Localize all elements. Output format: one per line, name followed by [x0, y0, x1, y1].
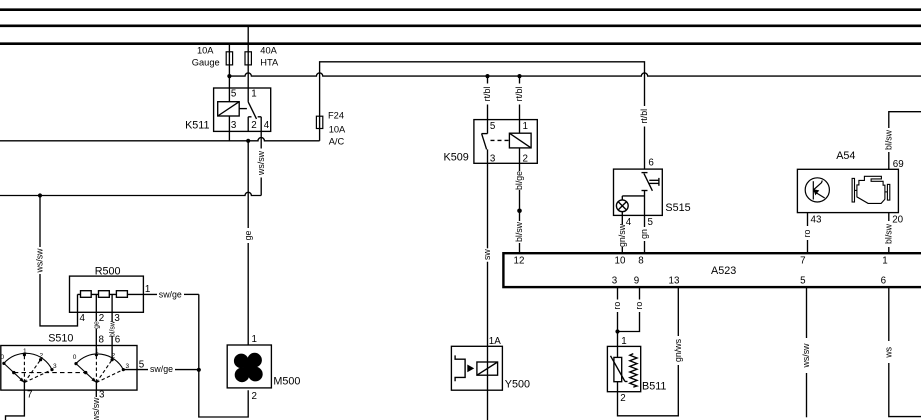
wire B511 pin2 loop to pin13 — [618, 365, 679, 416]
node K511 pin2 — [246, 139, 250, 143]
wire A523 pin6 ws — [888, 288, 890, 341]
sensor B511 — [607, 346, 640, 391]
svg-text:sw/ge: sw/ge — [159, 289, 182, 299]
wire K511 pin3 — [228, 116, 230, 141]
svg-text:1: 1 — [251, 88, 256, 99]
heated-seat switch S515 — [614, 169, 663, 215]
mechanical link S510 — [14, 372, 86, 374]
node line B / R500 branch — [38, 193, 42, 197]
wire S510 pin3 — [95, 390, 97, 397]
engine icon — [852, 176, 890, 203]
relay K511 — [214, 88, 271, 131]
wire 40A HTA feed — [247, 26, 249, 102]
svg-text:1: 1 — [23, 348, 27, 355]
lamp in S515 — [622, 195, 644, 197]
wire A54 pin20 bl/sw — [888, 213, 890, 221]
svg-text:S510: S510 — [48, 333, 73, 345]
svg-text:ge: ge — [94, 321, 101, 329]
svg-text:20: 20 — [892, 215, 903, 226]
svg-text:10A: 10A — [197, 46, 214, 56]
svg-text:1: 1 — [145, 284, 150, 295]
wire R500 pin3 to S510 pin6 — [111, 294, 113, 321]
wire A523 pin9 ro — [639, 288, 641, 300]
wire K509 pin2 bl/ge — [519, 148, 521, 171]
wire K509 pin3 sw to Y500 — [487, 149, 489, 248]
svg-text:1: 1 — [621, 336, 626, 347]
svg-text:ws/sw: ws/sw — [35, 248, 45, 274]
svg-text:bl/sw: bl/sw — [884, 223, 894, 244]
svg-text:gn: gn — [639, 229, 649, 239]
wire S510 pivot2 to pin3 — [95, 383, 97, 391]
wire K509 pin1 feed rt/bl — [519, 76, 521, 83]
node K509 pin5 feed — [485, 74, 489, 78]
svg-text:13: 13 — [669, 276, 680, 287]
wire A523 pin5 ws/sw — [806, 288, 808, 338]
wire line B — [0, 192, 261, 195]
svg-text:A523: A523 — [711, 265, 736, 277]
svg-text:gn/sw: gn/sw — [617, 223, 627, 247]
wire 10A gauge feed — [228, 44, 230, 102]
wire K509 pin5 feed rt/bl — [487, 76, 489, 83]
fuse F24 — [319, 116, 321, 141]
svg-text:Y500: Y500 — [505, 379, 530, 391]
svg-text:ws/sw: ws/sw — [91, 397, 101, 420]
svg-text:ro: ro — [802, 229, 812, 237]
wire net 30a horizontal (from fuse 10A to right edge, hops at 248/320/644) — [229, 73, 921, 76]
svg-text:7: 7 — [27, 390, 32, 401]
svg-text:sw/ge: sw/ge — [150, 364, 173, 374]
fuse 10A Gauge — [226, 52, 232, 65]
wire F24 to S515 pin6 — [320, 62, 645, 116]
svg-text:S515: S515 — [665, 202, 690, 214]
svg-text:A54: A54 — [836, 150, 855, 162]
svg-text:rt/bl: rt/bl — [639, 109, 649, 124]
svg-text:2: 2 — [112, 352, 116, 359]
wire S515 pin4 gn/sw — [621, 215, 623, 224]
wire K511 pin2 to M500 pin1 (ge) — [247, 141, 249, 228]
svg-text:bl/sw: bl/sw — [110, 320, 117, 337]
wire S510 pin5 sw/ge — [123, 369, 148, 371]
fuse 40A HTA — [245, 52, 251, 65]
svg-text:F24: F24 — [328, 110, 344, 120]
svg-text:6: 6 — [648, 157, 654, 168]
svg-text:9: 9 — [634, 276, 639, 287]
svg-text:HTA: HTA — [260, 57, 279, 67]
svg-text:R500: R500 — [95, 265, 121, 277]
svg-text:3: 3 — [612, 276, 618, 287]
node B511 pin1 — [615, 329, 619, 333]
svg-text:bl/sw: bl/sw — [514, 221, 524, 242]
wire S515 pin5 gn — [644, 215, 646, 227]
svg-text:1: 1 — [95, 348, 99, 355]
svg-text:ro: ro — [634, 302, 644, 310]
svg-text:K511: K511 — [185, 120, 209, 132]
svg-text:gn/ws: gn/ws — [673, 338, 683, 362]
svg-text:8: 8 — [638, 256, 644, 267]
wire K511 pin4 ws/sw — [260, 131, 262, 148]
svg-text:rt/bl: rt/bl — [514, 87, 524, 102]
text labels — [192, 46, 346, 147]
svg-text:10A: 10A — [329, 124, 346, 134]
wire S510 pin7 — [6, 390, 25, 420]
svg-text:bl/ge: bl/ge — [514, 171, 524, 190]
bus bar X — [0, 42, 921, 45]
blower switch S510 — [1, 346, 137, 391]
svg-text:1: 1 — [252, 334, 257, 345]
svg-text:1A: 1A — [489, 336, 501, 347]
control unit A523 — [503, 253, 921, 287]
svg-text:B511: B511 — [642, 380, 666, 392]
svg-text:7: 7 — [800, 256, 805, 267]
svg-text:2: 2 — [40, 352, 44, 359]
svg-text:ws: ws — [884, 346, 894, 358]
gauge icon — [805, 178, 829, 202]
svg-text:5: 5 — [490, 121, 496, 132]
svg-text:bl/sw: bl/sw — [884, 129, 894, 150]
svg-text:2: 2 — [251, 120, 256, 131]
svg-text:1: 1 — [882, 256, 887, 267]
wire A523 pin13 gn/ws — [677, 288, 679, 336]
svg-text:Gauge: Gauge — [192, 57, 220, 67]
wire ws/sw to R500 pin4 — [39, 196, 41, 248]
svg-text:2: 2 — [523, 153, 528, 164]
svg-text:ws/sw: ws/sw — [801, 343, 811, 369]
svg-text:3: 3 — [126, 363, 130, 370]
rotary switch section 2 of S510 — [76, 354, 123, 383]
wire R500 pin2 to S510 pin8 — [95, 294, 97, 321]
resistor pack R500 — [70, 276, 144, 312]
svg-text:2: 2 — [620, 393, 625, 404]
svg-text:ro: ro — [612, 302, 622, 310]
svg-text:0: 0 — [73, 354, 77, 361]
wire bl/sw to A523 pin12 — [519, 243, 521, 252]
svg-text:6: 6 — [881, 276, 887, 287]
svg-text:ge: ge — [243, 231, 253, 241]
svg-text:M500: M500 — [273, 376, 300, 388]
svg-text:ws/sw: ws/sw — [256, 150, 266, 176]
instrument cluster A54 — [797, 169, 898, 212]
svg-text:5: 5 — [800, 276, 806, 287]
svg-text:69: 69 — [893, 159, 904, 170]
wire R500 pin1 sw/ge down to M500 pin2 — [199, 294, 248, 417]
svg-text:12: 12 — [514, 256, 525, 267]
relay K509 — [474, 120, 537, 164]
svg-text:5: 5 — [648, 217, 654, 228]
svg-text:A/C: A/C — [329, 137, 345, 147]
wire A54 pin43 ro — [807, 213, 809, 226]
svg-text:K509: K509 — [444, 151, 469, 163]
blower motor M500 — [227, 345, 271, 388]
node fuse10A/K511 pin5 — [227, 74, 231, 78]
svg-text:4: 4 — [264, 120, 270, 131]
wire S510 pivot1 to pin7 — [23, 383, 25, 391]
svg-text:3: 3 — [53, 363, 57, 370]
wire A54 pin69 bl/sw — [888, 152, 890, 169]
svg-text:10: 10 — [615, 256, 626, 267]
svg-text:43: 43 — [811, 215, 822, 226]
splice node — [517, 209, 522, 214]
svg-text:4: 4 — [80, 313, 86, 324]
svg-text:1: 1 — [523, 121, 528, 132]
svg-text:2: 2 — [252, 391, 257, 402]
svg-text:3: 3 — [231, 120, 237, 131]
svg-text:3: 3 — [490, 153, 496, 164]
bus bar 15 — [0, 24, 921, 27]
svg-text:5: 5 — [231, 88, 237, 99]
node sw/ge junction — [197, 368, 201, 372]
svg-text:40A: 40A — [260, 46, 277, 56]
wire A523 pin3 ro — [617, 288, 619, 300]
rotary switch section 1 of S510 — [4, 353, 52, 382]
node K509 pin1 feed — [517, 74, 521, 78]
svg-text:5: 5 — [139, 360, 145, 371]
svg-text:sw: sw — [482, 249, 492, 260]
wire line A (to F24) — [0, 138, 320, 141]
svg-text:0: 0 — [1, 354, 5, 361]
svg-text:rt/bl: rt/bl — [482, 87, 492, 102]
bus bar 30 — [0, 8, 921, 11]
svg-text:8: 8 — [99, 335, 105, 346]
solenoid valve Y500 — [451, 346, 502, 390]
